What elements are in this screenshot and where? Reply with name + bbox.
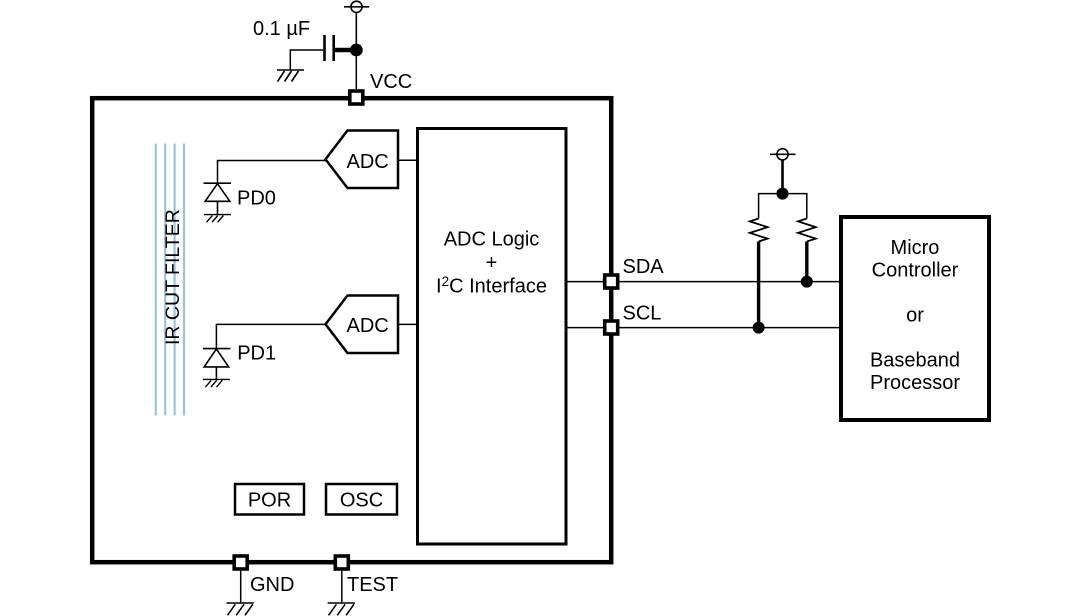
wire pull-up tee <box>759 194 807 219</box>
svg-text:+: + <box>486 252 498 274</box>
svg-text:0.1 µF: 0.1 µF <box>253 18 310 40</box>
capacitor C1 plates <box>325 35 334 61</box>
wire junction to VCC pin <box>355 56 357 91</box>
pin GND <box>234 556 247 569</box>
IR cut filter (blue lines) <box>156 144 184 416</box>
svg-text:Micro: Micro <box>891 237 940 259</box>
svg-text:Baseband: Baseband <box>870 350 960 372</box>
wire R1 to SCL <box>757 242 760 328</box>
micro controller / baseband processor block <box>841 217 989 420</box>
ADC block (lower) <box>326 296 399 354</box>
resistor R1 (SCL pull-up) <box>750 219 768 242</box>
power supply terminal (pull-up source) <box>770 149 796 160</box>
wire TEST pin to ground <box>341 569 343 603</box>
wire supply to junction <box>355 12 357 46</box>
svg-text:Processor: Processor <box>870 372 960 394</box>
svg-text:ADC Logic: ADC Logic <box>444 229 540 251</box>
svg-text:or: or <box>906 305 924 327</box>
wire capacitor right plate to junction (thick) <box>335 48 352 52</box>
svg-text:POR: POR <box>248 490 291 512</box>
wire ADC2 output <box>398 323 418 325</box>
svg-text:I2C Interface: I2C Interface <box>436 274 547 298</box>
wire capacitor left plate to ground <box>290 50 323 70</box>
svg-text:ADC: ADC <box>347 151 389 173</box>
wire PD1 to ADC2 <box>216 324 325 348</box>
wire SDA net <box>566 281 841 283</box>
svg-text:PD1: PD1 <box>237 343 276 365</box>
wire supply to pull-up junction <box>781 160 784 189</box>
junction dot (VCC node) <box>350 44 363 57</box>
ground (GND pin) <box>227 603 254 615</box>
main chip block U1 (light sensor IC) <box>92 98 611 562</box>
svg-text:VCC: VCC <box>370 71 412 93</box>
OSC block <box>326 484 397 515</box>
svg-text:PD0: PD0 <box>237 188 276 210</box>
ground (PD0) <box>204 215 231 223</box>
wire SCL net <box>566 327 841 329</box>
POR block <box>235 484 304 515</box>
photodiode PD1 <box>203 349 231 380</box>
photodiode PD0 <box>204 183 232 214</box>
ground (TEST pin) <box>328 603 355 615</box>
pin SCL <box>605 321 618 334</box>
pin VCC <box>350 91 363 104</box>
ADC block (upper) <box>326 131 399 189</box>
wire ADC1 output <box>398 159 418 161</box>
power supply terminal (top, VCC source) <box>344 1 369 12</box>
wire PD0 to ADC1 <box>218 161 326 184</box>
pin SDA <box>605 275 618 288</box>
svg-text:Controller: Controller <box>872 260 959 282</box>
svg-text:ADC: ADC <box>347 315 389 337</box>
pin TEST <box>335 556 348 569</box>
svg-text:SCL: SCL <box>623 303 662 325</box>
ground (capacitor) <box>277 70 304 82</box>
junction dot (SDA) <box>801 276 813 288</box>
junction dot (SCL) <box>753 322 765 334</box>
resistor R2 (SDA pull-up) <box>798 219 816 242</box>
ground (PD1) <box>203 379 230 387</box>
wire GND pin to ground <box>240 569 242 603</box>
svg-text:IR CUT FILTER: IR CUT FILTER <box>162 209 184 345</box>
wire R2 to SDA <box>805 242 808 282</box>
svg-text:OSC: OSC <box>340 490 383 512</box>
ADC logic / I2C interface block <box>418 129 567 545</box>
svg-text:SDA: SDA <box>623 256 665 278</box>
junction dot (pull-up node) <box>777 188 789 200</box>
svg-text:TEST: TEST <box>347 574 398 596</box>
svg-text:GND: GND <box>250 574 294 596</box>
